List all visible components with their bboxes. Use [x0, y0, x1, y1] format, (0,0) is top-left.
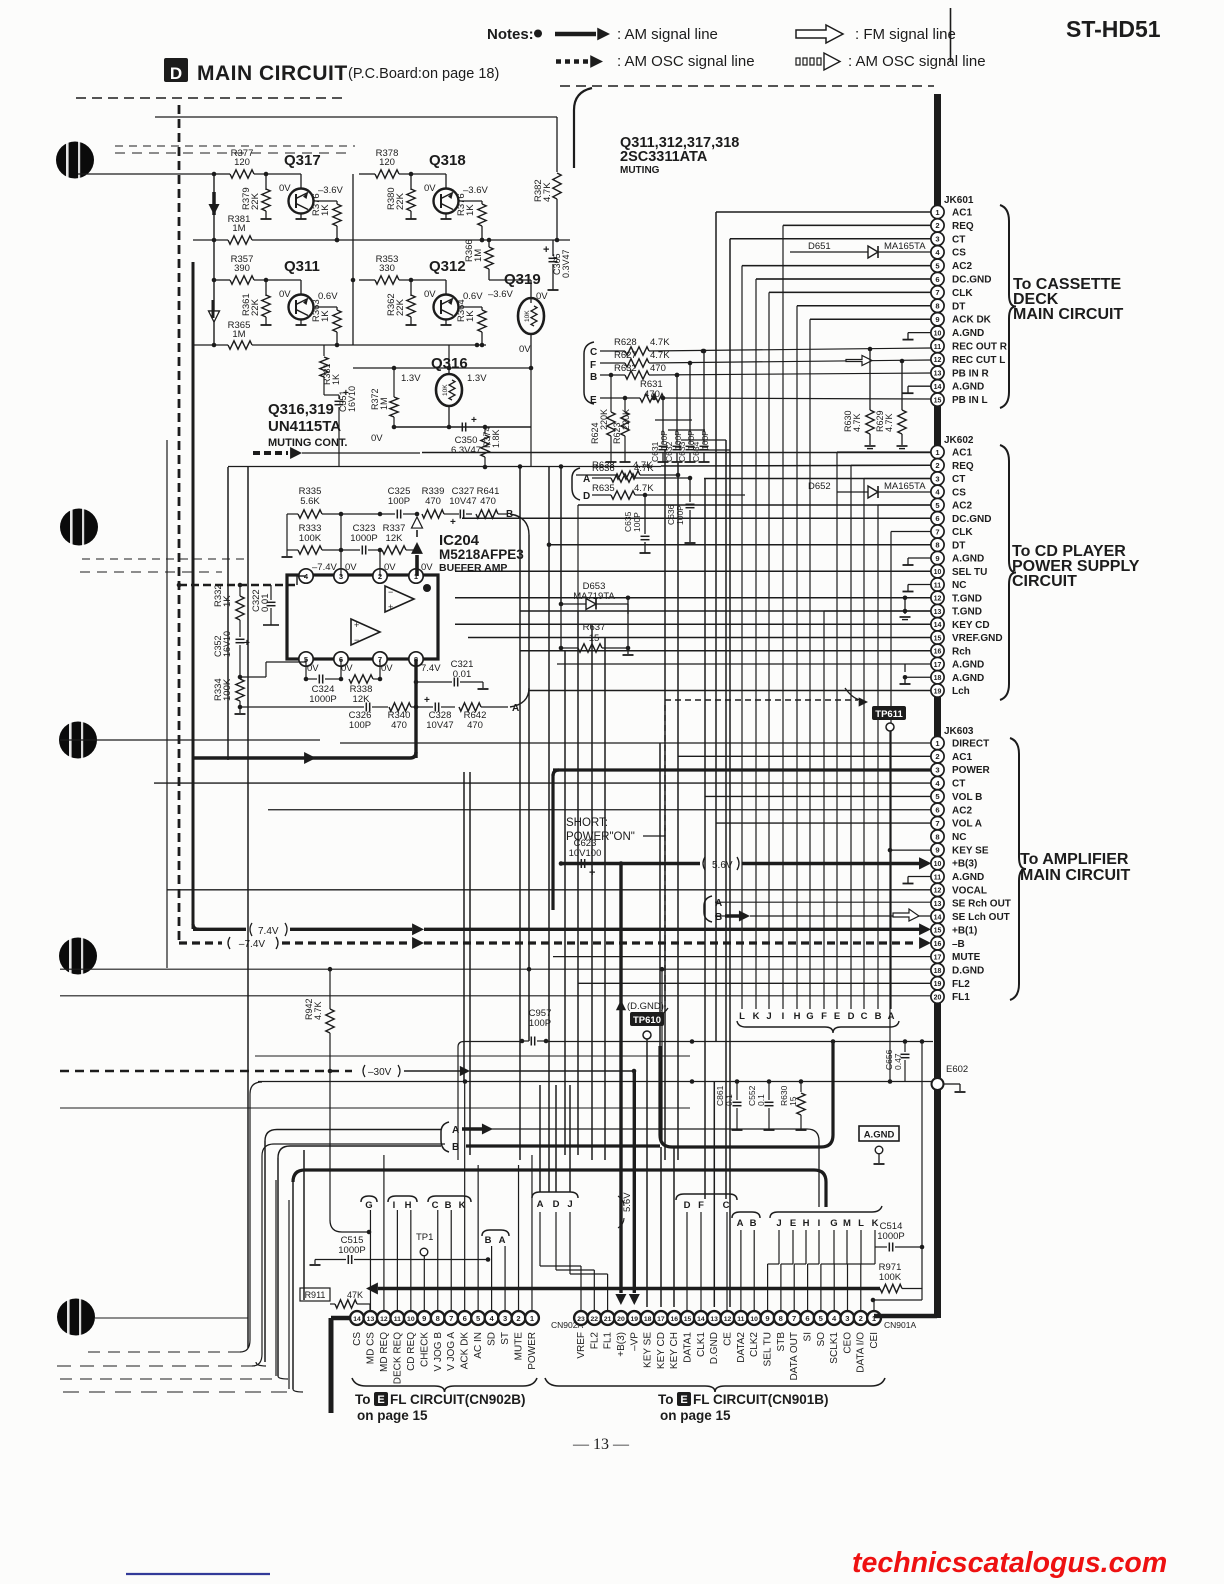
svg-text:VOL B: VOL B	[952, 792, 982, 803]
svg-text:+: +	[589, 867, 595, 879]
svg-text:CLK1: CLK1	[696, 1332, 707, 1357]
letters A D J	[532, 1192, 578, 1198]
svg-text:R627: R627	[614, 350, 637, 361]
svg-text:B: B	[875, 1011, 882, 1022]
svg-text:Q318: Q318	[429, 152, 466, 169]
svg-text:T.GND: T.GND	[952, 607, 982, 618]
wire bundle D	[850, 465, 852, 1009]
svg-text:19: 19	[934, 688, 942, 695]
svg-text:10K: 10K	[524, 310, 531, 322]
svg-text:–7.4V: –7.4V	[312, 562, 337, 573]
punch hole 5	[57, 1299, 95, 1336]
svg-text:10: 10	[934, 330, 942, 337]
svg-text:–B: –B	[952, 939, 965, 950]
svg-text:20: 20	[617, 1316, 625, 1323]
pin 8 CN902A V JOG B	[431, 1311, 445, 1325]
wire JK603 p2 left	[678, 755, 931, 757]
svg-text:CS: CS	[352, 1332, 363, 1346]
wire top dashed to bar	[560, 85, 934, 87]
svg-text:D: D	[583, 491, 590, 502]
wire vertical	[528, 535, 530, 1041]
svg-text:8: 8	[779, 1314, 783, 1323]
wire top dashed stub	[76, 97, 345, 99]
wire bus curve top	[574, 88, 592, 168]
svg-text:CIRCUIT: CIRCUIT	[1012, 573, 1077, 590]
svg-text:Q311: Q311	[284, 258, 320, 275]
svg-text:17: 17	[657, 1316, 665, 1323]
pin 4 JK601 CS	[931, 246, 944, 259]
svg-text:20: 20	[934, 994, 942, 1001]
wire long 1081	[258, 1081, 933, 1083]
wire vertical	[660, 1147, 662, 1307]
svg-text:on page 15: on page 15	[660, 1408, 731, 1423]
svg-text:D: D	[170, 64, 182, 83]
wire B line arrow	[715, 915, 725, 917]
wire rounded corner 289	[288, 1200, 290, 1389]
pin 15 JK603 +B(1)	[931, 923, 944, 936]
svg-text:AC2: AC2	[952, 501, 972, 512]
wire vertical	[539, 1085, 541, 1192]
svg-text:22K: 22K	[250, 298, 261, 316]
wire dash pair hole2	[82, 558, 250, 560]
svg-text:19: 19	[630, 1316, 638, 1323]
svg-text:AC2: AC2	[952, 261, 972, 272]
svg-text:22K: 22K	[395, 298, 406, 316]
pin 2 JK601 REQ	[931, 219, 944, 232]
svg-text:Q317: Q317	[284, 152, 321, 169]
svg-text:D651: D651	[808, 241, 831, 252]
pin 14 JK603 SE Lch OUT	[931, 910, 944, 923]
svg-text:23: 23	[577, 1316, 585, 1323]
wire elbow 420	[655, 419, 692, 421]
brace CN902B	[352, 1378, 537, 1392]
pin 6 CN902A ACK DK	[458, 1311, 472, 1325]
svg-text:1K: 1K	[465, 204, 476, 216]
svg-text:V JOG B: V JOG B	[433, 1332, 444, 1372]
pin 5 JK601 AC2	[931, 259, 944, 272]
svg-text:C: C	[590, 347, 597, 358]
wire thick power	[553, 768, 931, 771]
svg-text:T.GND: T.GND	[952, 593, 982, 604]
letters D F C	[676, 1194, 737, 1200]
pin 4 JK602 CS	[931, 485, 944, 498]
svg-text:15: 15	[589, 633, 600, 644]
svg-text:100K: 100K	[879, 1272, 902, 1283]
pin 3 CN901A CEO	[841, 1311, 855, 1325]
wire -B -7.4V dashed	[179, 941, 222, 944]
pin 7 CN901A DATA OUT	[787, 1311, 801, 1325]
svg-text:NC: NC	[952, 832, 966, 843]
svg-text:18: 18	[644, 1316, 652, 1323]
wire JK601 p3 left	[730, 238, 931, 240]
wire vertical	[555, 1085, 557, 1192]
svg-text:10V47: 10V47	[426, 720, 453, 731]
svg-text:9: 9	[935, 554, 939, 563]
pin 9 CN901A SEL TU	[761, 1311, 775, 1325]
pin 9 CN902A CHECK	[417, 1311, 431, 1325]
svg-text:6: 6	[805, 1314, 809, 1323]
test point TP611	[872, 706, 906, 720]
svg-text:PB IN L: PB IN L	[952, 395, 988, 406]
pin 7 JK601 CLK	[931, 286, 944, 299]
pin 13 JK603 SE Rch OUT	[931, 897, 944, 910]
svg-text:0V: 0V	[381, 663, 393, 674]
svg-text:0V: 0V	[421, 562, 433, 573]
wire bundle L	[741, 266, 743, 1009]
pin 13 CN901A D.GND	[707, 1311, 721, 1325]
wire dashed tail 3	[60, 1378, 278, 1380]
svg-text:MUTING CONT.: MUTING CONT.	[268, 437, 347, 449]
svg-text:1.3V: 1.3V	[401, 373, 421, 384]
wire -30V dashed	[60, 1070, 352, 1073]
wire +B1 7.4V	[193, 928, 246, 931]
pin 23 CN901A VREF	[574, 1311, 588, 1325]
svg-text:7: 7	[935, 819, 939, 828]
svg-text:1000P: 1000P	[877, 1231, 904, 1242]
svg-text:13: 13	[934, 371, 942, 378]
svg-text:1M: 1M	[379, 397, 389, 410]
wire CN902A pin1 up	[531, 1155, 533, 1311]
wire hole1 line	[78, 173, 214, 175]
svg-text:(D.GND): (D.GND)	[627, 1001, 664, 1012]
svg-text:on page 15: on page 15	[357, 1408, 428, 1423]
svg-text:0.47: 0.47	[893, 1053, 903, 1070]
letters B A TP1	[482, 1230, 509, 1236]
svg-text:technicscatalogus.com: technicscatalogus.com	[852, 1547, 1167, 1579]
wire long 1048	[255, 1055, 690, 1057]
svg-text:470: 470	[391, 720, 407, 731]
resistor R363	[314, 306, 338, 308]
wire bundle H	[796, 306, 798, 1009]
svg-text:10: 10	[934, 569, 942, 576]
svg-text:MAIN CIRCUIT: MAIN CIRCUIT	[197, 62, 348, 85]
svg-text:22K: 22K	[395, 192, 406, 210]
wire pin2 up	[379, 550, 381, 576]
pin 11 JK602 NC	[931, 578, 944, 591]
svg-text:KEY SE: KEY SE	[952, 845, 989, 856]
svg-text:0V: 0V	[424, 289, 436, 300]
wire long 968	[60, 968, 931, 970]
svg-text:14: 14	[934, 384, 942, 391]
svg-text:E: E	[680, 1394, 687, 1406]
svg-text:FL CIRCUIT(CN901B): FL CIRCUIT(CN901B)	[693, 1392, 829, 1407]
svg-text:C: C	[861, 1011, 868, 1022]
svg-text:+B(3): +B(3)	[616, 1332, 627, 1357]
wire JK603 p12 left	[167, 889, 931, 891]
pin 3 JK602 CT	[931, 472, 944, 485]
wire mid horizontal 467	[228, 466, 661, 468]
svg-text:POWER: POWER	[952, 765, 991, 776]
pin 15 JK602 VREF.GND	[931, 631, 944, 644]
svg-text:A: A	[715, 898, 722, 909]
svg-text:E: E	[790, 1218, 796, 1229]
svg-text:+: +	[388, 602, 393, 612]
wire CN902A pin4 up	[491, 1246, 493, 1311]
svg-text:18: 18	[934, 968, 942, 975]
pin 10 JK602 SEL TU	[931, 565, 944, 578]
svg-text:SCLK1: SCLK1	[829, 1332, 840, 1364]
wire hole3 line	[60, 739, 320, 741]
pin 12 CN901A CE	[721, 1311, 735, 1325]
resistor R376	[314, 200, 338, 202]
wire vertical	[463, 772, 465, 1082]
svg-text:AC1: AC1	[952, 448, 972, 459]
svg-text:A.GND: A.GND	[952, 673, 984, 684]
connector main bus bar	[934, 94, 941, 1318]
wire JK601 p2 left	[783, 224, 931, 226]
wire JK602 p5 left	[578, 504, 931, 506]
wire JK602 p13 left	[520, 610, 931, 612]
svg-text:–3.6V: –3.6V	[488, 289, 513, 300]
wire elbow 440	[681, 439, 726, 441]
svg-text:V JOG A: V JOG A	[446, 1332, 457, 1371]
svg-text:8: 8	[436, 1314, 440, 1323]
pin 5 JK603 VOL B	[931, 790, 944, 803]
svg-text:A.GND: A.GND	[952, 382, 984, 393]
wire dashed tail 1	[88, 1351, 240, 1353]
wire long 1041	[464, 1041, 522, 1043]
wire bundle A	[890, 532, 892, 1010]
svg-text:2SC3311ATA: 2SC3311ATA	[620, 149, 708, 165]
resistor R364	[459, 306, 483, 308]
svg-text:: AM OSC signal line: : AM OSC signal line	[848, 53, 986, 70]
svg-text:0.1: 0.1	[724, 1094, 734, 1106]
wire bundle K	[755, 279, 757, 1009]
wire JK602 p2 left	[661, 464, 931, 467]
wire vertical	[292, 1182, 294, 1389]
svg-text:3: 3	[935, 474, 939, 483]
wire CN902A pin3 up	[504, 1246, 506, 1311]
pin 20 JK603 FL1	[931, 990, 944, 1003]
svg-text:B: B	[590, 372, 597, 383]
wire lower rail 1	[193, 239, 228, 241]
wire CN902A pin14 thick	[331, 1316, 350, 1321]
bundle arc B	[510, 514, 529, 535]
wire vertical	[227, 467, 229, 760]
svg-text:TP611: TP611	[875, 709, 903, 720]
svg-text:+B(1): +B(1)	[952, 925, 977, 936]
wire vertical	[303, 1150, 305, 1300]
svg-text:10: 10	[750, 1316, 758, 1323]
svg-text:+B(3): +B(3)	[952, 859, 977, 870]
wire JK602 p10 left	[455, 570, 931, 572]
svg-text:0.3V47: 0.3V47	[561, 249, 571, 278]
svg-text:ACK DK: ACK DK	[460, 1332, 471, 1370]
svg-text:D.GND: D.GND	[952, 965, 984, 976]
svg-text:390: 390	[234, 263, 250, 274]
svg-text:4.7K: 4.7K	[633, 460, 653, 471]
pin 8 JK601 DT	[931, 299, 944, 312]
svg-text:CHECK: CHECK	[419, 1332, 430, 1367]
svg-text:R632: R632	[614, 363, 637, 374]
svg-text:10V100: 10V100	[569, 848, 602, 859]
svg-text:2: 2	[859, 1314, 863, 1323]
thick wire to pin8	[193, 756, 410, 759]
pin 12 JK602 T.GND	[931, 591, 944, 604]
svg-text:8: 8	[935, 832, 939, 841]
signal arrow up filled	[411, 542, 423, 554]
pin 11 JK601 REC OUT R	[931, 339, 944, 352]
pin 4 CN901A SCLK1	[827, 1311, 841, 1325]
svg-text:A: A	[499, 1235, 506, 1246]
pin 18 JK602 A.GND	[931, 671, 944, 684]
svg-text:2: 2	[935, 221, 939, 230]
svg-text:DT: DT	[952, 540, 965, 551]
svg-text:470: 470	[425, 496, 441, 507]
pin 17 CN901A KEY CD	[654, 1311, 668, 1325]
pin 6 CN901A SI	[801, 1311, 815, 1325]
pin 2 JK603 AC1	[931, 750, 944, 763]
pin 12 JK603 VOCAL	[931, 883, 944, 896]
legend FM signal line arrow	[796, 25, 843, 43]
wire JK603 p4 left	[154, 782, 931, 784]
svg-text:B: B	[750, 1218, 757, 1229]
wire hole5 line	[95, 1317, 248, 1319]
svg-text:9: 9	[935, 846, 939, 855]
svg-text:11: 11	[934, 582, 942, 589]
svg-text:MA165TA: MA165TA	[884, 241, 926, 252]
svg-text:REC CUT L: REC CUT L	[952, 355, 1005, 366]
wire top rail	[214, 173, 230, 175]
svg-text:5.6K: 5.6K	[300, 496, 320, 507]
bracket CFBE	[584, 342, 594, 404]
pin 2 CN902A MUTE	[512, 1311, 526, 1325]
punch hole 2	[60, 509, 98, 546]
wire CN902A pin12 up	[383, 1155, 385, 1311]
brace To CASSETTE DECK	[1000, 205, 1016, 408]
pin 10 JK601 A.GND	[931, 326, 944, 339]
svg-text:330: 330	[379, 263, 395, 274]
svg-text:VOCAL: VOCAL	[952, 885, 987, 896]
svg-text:+: +	[471, 415, 477, 426]
svg-text:CLK: CLK	[952, 527, 973, 538]
svg-text:REQ: REQ	[952, 461, 974, 472]
svg-text:SE Lch OUT: SE Lch OUT	[952, 912, 1010, 923]
pin 4 IC204	[299, 569, 313, 583]
punch hole 3	[59, 722, 97, 759]
wire JK603 p9 left	[890, 849, 931, 851]
svg-text:F: F	[698, 1200, 704, 1211]
pin 11 CN902A DECK REQ	[390, 1311, 404, 1325]
signal arrow +B3 pin	[919, 857, 931, 869]
svg-text:H: H	[794, 1011, 801, 1022]
pin 3 JK601 CT	[931, 232, 944, 245]
ground JK603 pin11 A.GND	[908, 876, 931, 878]
wire CN902A pin7 up	[450, 1210, 452, 1311]
bundle arc A	[510, 688, 529, 707]
svg-text:SO: SO	[816, 1332, 827, 1347]
svg-text:+: +	[543, 244, 549, 256]
svg-text:5.6V: 5.6V	[712, 860, 733, 871]
svg-text:9: 9	[422, 1314, 426, 1323]
svg-text:3: 3	[503, 1314, 507, 1323]
pin 15 JK601 PB IN L	[931, 393, 944, 406]
svg-text:CS: CS	[952, 487, 966, 498]
svg-text:14: 14	[934, 914, 942, 921]
wire bundle G	[809, 319, 811, 1009]
svg-text:VREF.GND: VREF.GND	[952, 633, 1003, 644]
svg-text:TP610: TP610	[633, 1015, 661, 1026]
svg-text:10K: 10K	[442, 384, 449, 396]
svg-text:15: 15	[934, 928, 942, 935]
svg-text:SE Rch OUT: SE Rch OUT	[952, 899, 1011, 910]
svg-text:K: K	[459, 1200, 466, 1211]
svg-text:18: 18	[934, 675, 942, 682]
svg-text:1000P: 1000P	[309, 694, 336, 705]
svg-text:(P.C.Board:on page 18): (P.C.Board:on page 18)	[348, 66, 499, 82]
ground JK602 pin11 NC	[908, 584, 931, 586]
svg-text:12K: 12K	[353, 694, 371, 705]
svg-text:470: 470	[480, 496, 496, 507]
svg-text:100K: 100K	[299, 533, 322, 544]
svg-text:A.GND: A.GND	[952, 660, 984, 671]
svg-text:MA165TA: MA165TA	[884, 481, 926, 492]
wire vertical	[577, 611, 579, 1155]
pin 9 JK603 KEY SE	[931, 843, 944, 856]
svg-text:+: +	[244, 638, 250, 649]
wire bundle I	[782, 225, 784, 1009]
pin 8 CN901A STB	[774, 1311, 788, 1325]
wire top rail	[359, 279, 375, 281]
svg-text:12: 12	[380, 1316, 388, 1323]
svg-text:JK603: JK603	[944, 726, 974, 737]
svg-text:D.GND: D.GND	[709, 1332, 720, 1364]
svg-text:13: 13	[367, 1316, 375, 1323]
svg-text:DECK REQ: DECK REQ	[392, 1332, 403, 1384]
svg-text:J: J	[776, 1218, 781, 1229]
svg-text:1K: 1K	[320, 310, 331, 322]
svg-text:1K: 1K	[465, 310, 476, 322]
svg-text:CT: CT	[952, 234, 965, 245]
wire thick mid path	[660, 1041, 833, 1147]
pin 7 CN902A V JOG A	[444, 1311, 458, 1325]
svg-text:2: 2	[516, 1314, 520, 1323]
svg-text:Rch: Rch	[952, 646, 971, 657]
svg-text:4.7K: 4.7K	[313, 1001, 323, 1020]
svg-text:CLK: CLK	[952, 288, 973, 299]
svg-text:PB IN R: PB IN R	[952, 368, 989, 379]
svg-text:MD REQ: MD REQ	[379, 1332, 390, 1372]
pin 14 CN901A CLK1	[694, 1311, 708, 1325]
svg-text:POWER"ON": POWER"ON"	[566, 831, 635, 843]
pin 2 IC204	[373, 569, 387, 583]
wire JK601 p6 left	[756, 278, 931, 280]
svg-text:— 13 —: — 13 —	[572, 1436, 630, 1453]
svg-text:: FM signal line: : FM signal line	[855, 26, 956, 43]
svg-text:KEY CD: KEY CD	[952, 620, 990, 631]
svg-text:4.7K: 4.7K	[650, 350, 670, 361]
wire A path	[466, 1128, 807, 1130]
legend AM signal line arrow	[555, 32, 596, 37]
svg-text:0V: 0V	[371, 433, 383, 444]
wire mid vertical 2	[352, 174, 354, 345]
svg-text:1000P: 1000P	[350, 533, 377, 544]
svg-text:12: 12	[934, 596, 942, 603]
svg-text:M: M	[843, 1218, 851, 1229]
svg-text:17: 17	[934, 954, 942, 961]
pin 16 JK603 –B	[931, 937, 944, 950]
svg-text:6: 6	[935, 514, 939, 523]
wire thick arrow R971 line	[366, 1283, 378, 1295]
wire vertical	[673, 1147, 675, 1307]
svg-text:–VP: –VP	[629, 1332, 640, 1351]
svg-text:4.7K: 4.7K	[634, 483, 654, 494]
svg-text:−: −	[388, 587, 393, 597]
svg-text:15: 15	[934, 397, 942, 404]
wire A line	[715, 901, 931, 903]
svg-text:FL1: FL1	[952, 992, 970, 1003]
signal arrow down filled	[208, 204, 219, 215]
